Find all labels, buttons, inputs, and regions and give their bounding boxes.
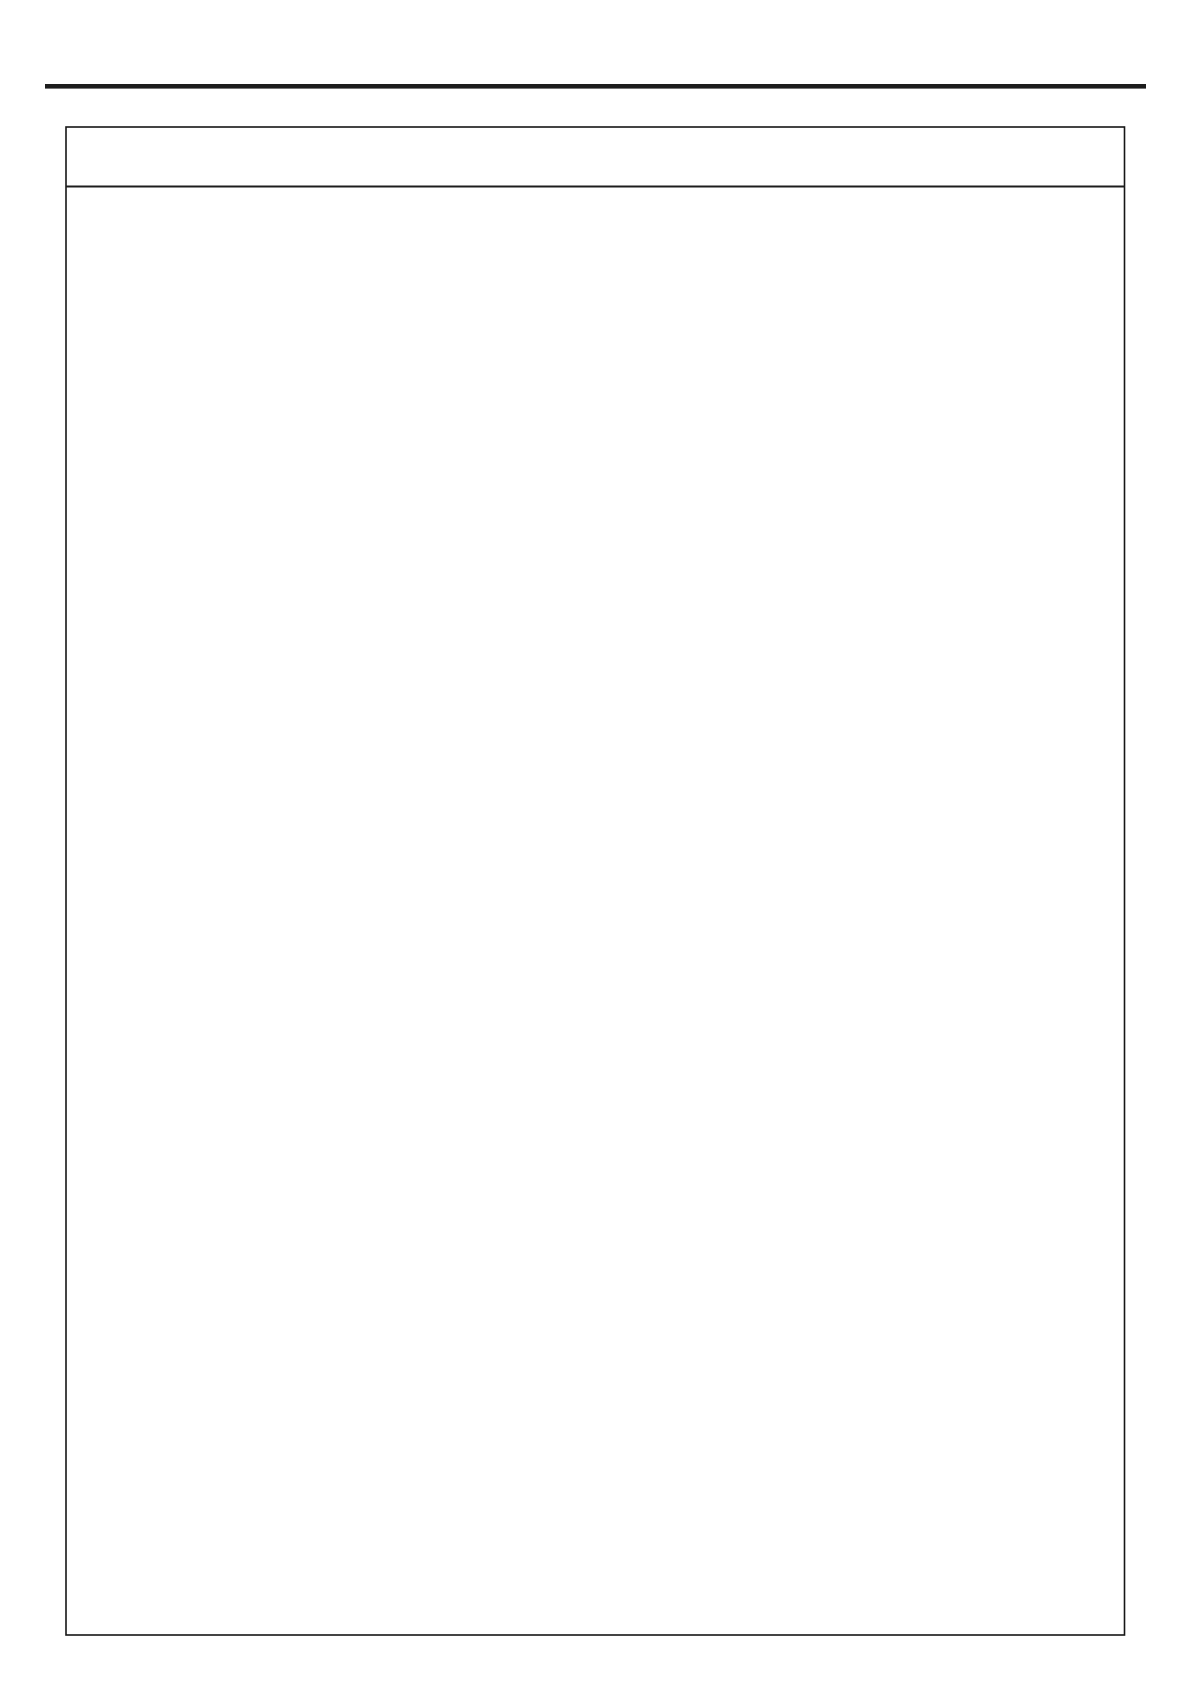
top rule (45, 84, 1146, 89)
page frame (66, 127, 1125, 1635)
header separator (66, 186, 1125, 188)
